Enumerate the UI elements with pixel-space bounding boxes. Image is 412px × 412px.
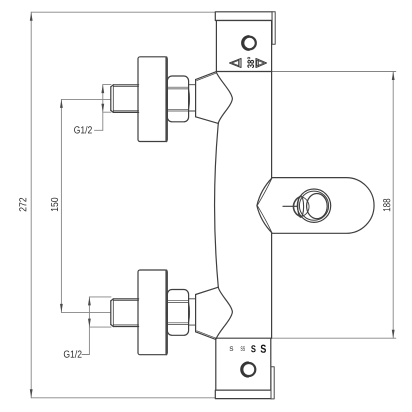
38 degree left triangle bar: [238, 59, 240, 66]
top right tab: [272, 12, 275, 44]
dimension G1/2 bottom arrow up: [88, 297, 91, 306]
top wall flange: [138, 57, 167, 142]
thermostat head button ring left emphasis: [242, 36, 249, 50]
body left edge: [215, 123, 219, 287]
bottom hex nut: [166, 290, 189, 336]
bottom wall flange right dark edge: [165, 270, 167, 354]
38 degree label: [247, 57, 254, 68]
top hex nut: [166, 76, 189, 122]
top connector pipe: [189, 85, 196, 111]
flow symbol 4: [261, 345, 266, 353]
bottom thread nipple G1/2: [111, 299, 139, 327]
handle beak inner curve: [258, 179, 272, 205]
top thread nipple G1/2: [111, 85, 139, 113]
bottom connector pipe: [189, 299, 196, 325]
dimension 272 arrow bottom: [30, 389, 33, 398]
dimension G1/2 top leader dash: [95, 129, 103, 131]
bottom wall flange: [138, 270, 167, 355]
dimension 188 extension line top: [272, 71, 396, 73]
dimension G1/2 bottom witness line: [88, 297, 90, 355]
38 degree left triangle inner line: [232, 60, 239, 66]
bottom right tab: [271, 367, 274, 399]
dimension 150 label: [51, 198, 58, 211]
handle knob ring inner circle: [299, 191, 328, 220]
dimension 150 arrow top: [60, 99, 63, 108]
dimension 188 extension line bottom: [271, 337, 396, 339]
dimension G1/2 bottom tick top: [89, 296, 111, 298]
dimension 272 arrow top: [30, 12, 33, 21]
dimension G1/2 bottom leader dash: [82, 354, 89, 356]
bottom section top line: [216, 337, 271, 339]
dimension G1/2 top tick bottom: [103, 111, 111, 113]
dimension G1/2 top witness line: [102, 85, 104, 131]
dimension 150 extension line top: [61, 98, 110, 100]
bottom section right edge: [270, 338, 272, 390]
dimension G1/2 top tick top: [103, 84, 111, 86]
handle knob ring outer circle: [297, 189, 330, 222]
dimension 188 line: [392, 72, 394, 339]
bottom inlet bell: [196, 287, 233, 339]
dimension 150 extension line bottom: [61, 311, 110, 313]
38 degree left triangle: [230, 59, 242, 68]
38 degree right triangle inner line: [257, 60, 264, 66]
handle beak inner curve lower: [258, 206, 272, 232]
top inlet bell: [196, 72, 233, 124]
handle stem dark crescent: [293, 197, 300, 217]
handle knob face circle: [307, 194, 328, 219]
dimension G1/2 bottom label: [64, 350, 82, 357]
dimension 272 line: [30, 12, 32, 398]
handle capsule: [257, 178, 374, 234]
dimension 188 arrow bottom: [392, 330, 395, 339]
top cap: [215, 12, 272, 21]
38 degree right triangle bar: [257, 59, 259, 66]
thermostat head: [216, 21, 271, 72]
38 degree right triangle: [256, 59, 267, 68]
dimension 272 extension line bottom: [31, 397, 216, 399]
flow symbol 2: [241, 346, 245, 350]
dimension G1/2 top arrow up: [101, 85, 104, 94]
thermostat head button ring: [243, 37, 256, 50]
dimension 150 line: [60, 99, 62, 312]
dimension 272 extension line top: [31, 11, 215, 13]
dimension 188 label: [383, 199, 390, 211]
bottom section left edge: [215, 338, 217, 390]
handle stem inner edge: [302, 197, 309, 216]
bottom button ring: [242, 363, 255, 376]
dimension G1/2 bottom tick bottom: [89, 326, 111, 328]
body right edge upper: [271, 72, 273, 178]
flow symbol 1: [230, 346, 234, 350]
bottom cap: [215, 390, 271, 398]
dimension 188 arrow top: [392, 72, 395, 81]
dimension 150 arrow bottom: [60, 304, 63, 313]
dimension 272 label: [19, 198, 26, 212]
bottom section bottom line: [216, 389, 271, 391]
dimension G1/2 top arrow down: [101, 104, 104, 113]
handle stem ellipse: [298, 196, 304, 217]
bottom button ring left emphasis: [241, 362, 248, 377]
flow symbol 3: [251, 345, 255, 352]
dimension G1/2 bottom arrow down: [88, 319, 91, 328]
body right edge lower: [271, 233, 273, 338]
handle stem tick: [283, 205, 298, 207]
dimension G1/2 top label: [74, 126, 92, 133]
top wall flange right dark edge: [165, 57, 167, 141]
